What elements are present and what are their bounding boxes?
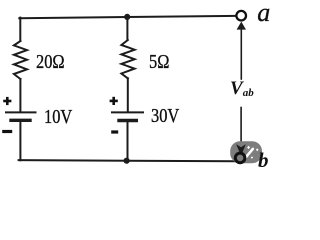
resistor R1 20ohm zigzag: [14, 41, 27, 79]
wire left branch middle: [19, 79, 21, 112]
wire top: [19, 16, 235, 18]
battery B2 30V plates: [112, 111, 143, 113]
wire middle branch upper: [126, 17, 128, 40]
battery B1 10V plates: [6, 111, 36, 113]
label Vab: [230, 78, 254, 100]
label node b: [258, 148, 269, 173]
node junction dot top: [124, 14, 130, 20]
battery B2 plus sign: [110, 97, 118, 105]
label 5ohm: [149, 51, 169, 74]
arrowhead up at a: [237, 22, 246, 30]
wire bottom: [19, 160, 236, 161]
label 20ohm: [36, 51, 65, 74]
wire Vab arrow upper segment: [240, 29, 242, 79]
arrowhead down at b: [236, 144, 246, 156]
wire middle branch center: [127, 78, 129, 112]
battery B1 plus sign: [3, 97, 11, 105]
wire left branch upper: [19, 18, 21, 41]
label 30V: [151, 105, 179, 128]
wire Vab arrow lower segment: [240, 108, 242, 147]
label node a: [257, 0, 270, 28]
terminal a: [236, 11, 246, 21]
battery B2 minus sign: [111, 130, 118, 133]
battery B1 minus sign: [2, 130, 12, 133]
wire middle branch lower: [127, 122, 129, 160]
cursor blob wand: [243, 146, 259, 161]
cursor blob gray pill: [230, 141, 262, 163]
terminal b: [235, 153, 245, 163]
node junction dot bottom: [124, 158, 130, 164]
wire left branch lower: [19, 122, 21, 160]
resistor R2 5ohm zigzag: [121, 40, 134, 78]
label 10V: [44, 106, 72, 129]
